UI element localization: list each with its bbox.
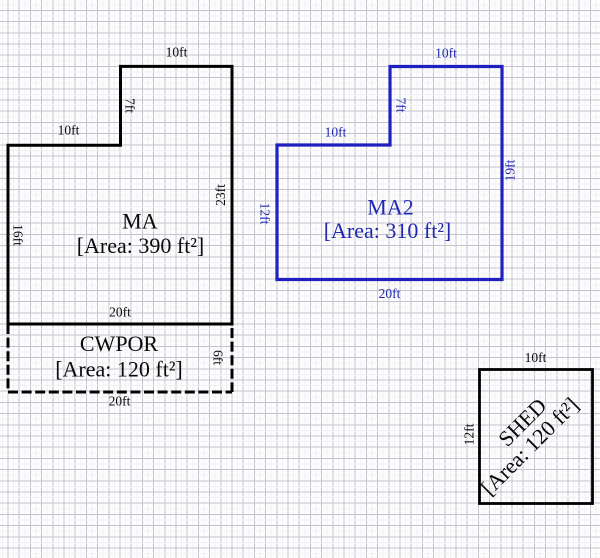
- svg-text:7ft: 7ft: [123, 98, 138, 113]
- svg-text:10ft: 10ft: [166, 45, 188, 60]
- label MA2 name: [367, 195, 413, 220]
- svg-text:MA: MA: [122, 209, 158, 234]
- dimension 6ft right wall of CWPOR: [211, 350, 226, 365]
- polygon MA2 (blue second area outline): [277, 67, 502, 280]
- svg-text:MA2: MA2: [367, 195, 413, 220]
- dimension 7ft notch vertical of MA: [123, 98, 138, 113]
- svg-text:[Area: 310 ft²]: [Area: 310 ft²]: [324, 218, 452, 243]
- dimension 10ft notch top of MA2: [325, 125, 347, 140]
- dimension 16ft left wall of MA: [11, 224, 26, 246]
- polygon MA (main area outline): [8, 66, 232, 324]
- label MA name: [122, 209, 158, 234]
- polygon SHED outline: [480, 370, 593, 504]
- svg-text:6ft: 6ft: [211, 350, 226, 365]
- svg-text:10ft: 10ft: [435, 46, 457, 61]
- svg-text:10ft: 10ft: [58, 123, 80, 138]
- svg-text:20ft: 20ft: [109, 305, 131, 320]
- dimension 10ft top of MA upper section: [166, 45, 188, 60]
- label SHED area (rotated 45deg): [476, 392, 584, 500]
- svg-text:23ft: 23ft: [213, 184, 228, 206]
- svg-text:[Area: 390 ft²]: [Area: 390 ft²]: [77, 233, 205, 258]
- label MA area: [77, 233, 205, 258]
- dimension 23ft right wall of MA: [213, 184, 228, 206]
- dimension 20ft bottom wall of MA: [109, 305, 131, 320]
- svg-text:12ft: 12ft: [258, 203, 273, 225]
- svg-text:16ft: 16ft: [11, 224, 26, 246]
- dimension 12ft left wall of MA2: [258, 203, 273, 225]
- dimension 10ft top of SHED: [525, 350, 547, 365]
- svg-text:19ft: 19ft: [503, 159, 518, 181]
- svg-text:10ft: 10ft: [325, 125, 347, 140]
- dimension 10ft notch top of MA: [58, 123, 80, 138]
- dimension 10ft top of MA2 upper section: [435, 46, 457, 61]
- svg-text:[Area: 120 ft²]: [Area: 120 ft²]: [55, 357, 183, 382]
- svg-text:12ft: 12ft: [462, 423, 477, 445]
- svg-text:10ft: 10ft: [525, 350, 547, 365]
- polygon CWPOR (covered porch, dashed): [8, 324, 232, 392]
- label CWPOR name: [80, 331, 159, 356]
- dimension 7ft notch vertical of MA2: [394, 98, 409, 113]
- dimension 12ft left wall of SHED: [462, 423, 477, 445]
- label SHED name (rotated 45deg): [493, 393, 551, 451]
- svg-text:20ft: 20ft: [379, 286, 401, 301]
- svg-text:CWPOR: CWPOR: [80, 331, 159, 356]
- label MA2 area: [324, 218, 452, 243]
- svg-text:20ft: 20ft: [109, 394, 131, 409]
- svg-text:7ft: 7ft: [394, 98, 409, 113]
- label CWPOR area: [55, 357, 183, 382]
- dimension 19ft right wall of MA2: [503, 159, 518, 181]
- dimension 20ft bottom wall of MA2: [379, 286, 401, 301]
- dimension 20ft bottom wall of CWPOR: [109, 394, 131, 409]
